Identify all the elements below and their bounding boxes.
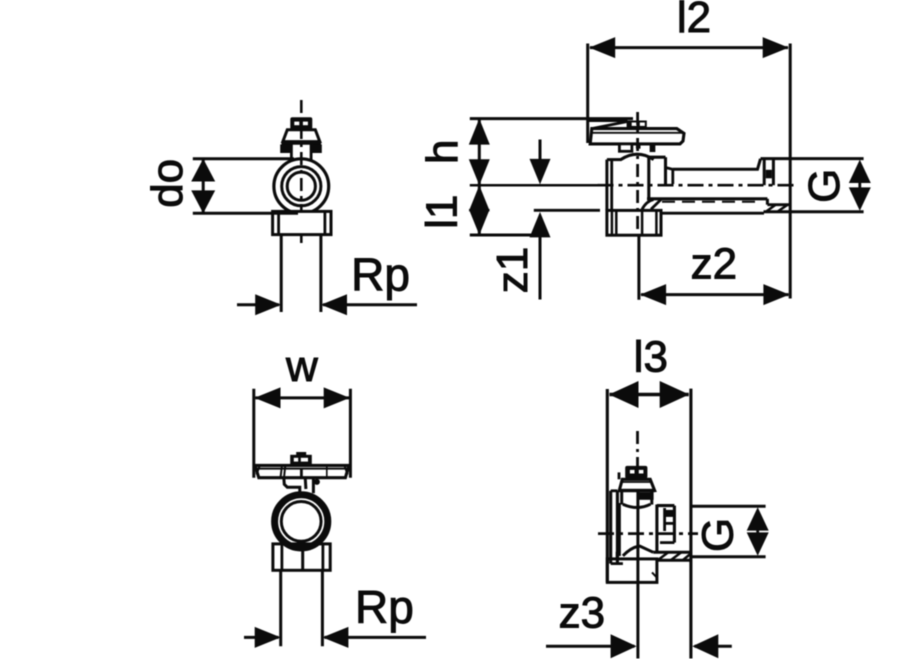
svg-text:z1: z1 bbox=[488, 247, 537, 293]
flange left chamfer B bbox=[651, 200, 661, 210]
dimension w extension lines bbox=[252, 389, 255, 478]
packing nut right block A bbox=[311, 145, 321, 153]
dimension l1 bottom extension line bbox=[470, 234, 544, 237]
svg-text:l1: l1 bbox=[418, 195, 467, 229]
dimension l3 extension line left bbox=[606, 389, 609, 582]
fitting verticals B bbox=[763, 159, 766, 185]
stem ball C bbox=[314, 479, 320, 485]
flange bottom edge D bbox=[657, 559, 691, 562]
dimension Rp C line right bbox=[325, 636, 427, 639]
body top edge B bbox=[607, 158, 622, 161]
svg-text:z3: z3 bbox=[559, 589, 605, 638]
valve outer ring C thick bbox=[275, 495, 328, 548]
body right edge B bbox=[647, 157, 650, 199]
bonnet dome D bbox=[623, 504, 651, 507]
body left inner edge B bbox=[610, 160, 613, 211]
handle tab C bbox=[296, 452, 306, 455]
dimension G arrows B bbox=[858, 180, 861, 190]
horizontal centerline D dash-dot bbox=[598, 532, 698, 535]
flange bottom edge B bbox=[653, 212, 765, 215]
outlet thread mark D bbox=[663, 508, 666, 531]
valve stem cap D bbox=[625, 466, 647, 479]
hex nut A bbox=[273, 211, 331, 234]
svg-text:Rp: Rp bbox=[355, 581, 414, 633]
dimension l2 extension line left bbox=[586, 44, 589, 144]
fitting top edge and G extension top B bbox=[761, 157, 864, 160]
dimension h top extension line bbox=[470, 117, 633, 120]
outlet right edge B bbox=[664, 157, 667, 184]
vertical centerline A bbox=[300, 100, 303, 246]
ball silhouette curve D bbox=[623, 546, 653, 556]
stem left block B bbox=[619, 144, 632, 151]
horizontal centerline B dash-dot bbox=[598, 184, 799, 187]
packing nut left block A bbox=[281, 145, 291, 153]
stem column lines A bbox=[290, 143, 293, 161]
nut D bbox=[607, 559, 657, 583]
body left edge D bbox=[618, 503, 621, 556]
svg-text:z2: z2 bbox=[691, 240, 737, 289]
handle tab B bbox=[627, 121, 647, 129]
z2 left extension line B bbox=[637, 236, 640, 300]
stem block D bbox=[620, 491, 623, 505]
dimension l2 line and arrows bbox=[590, 46, 788, 49]
dimension h and l1 line with arrows bbox=[478, 119, 481, 235]
handle bar C bbox=[255, 465, 349, 477]
dimension do arrows bbox=[202, 159, 205, 214]
valve bonnet trapezoid A bbox=[283, 130, 320, 142]
pipe walls C bbox=[279, 570, 282, 646]
outlet bottom edge D bbox=[660, 541, 674, 544]
flange upper band inner dashed B bbox=[662, 201, 757, 203]
dimension G arrows D bbox=[756, 528, 759, 535]
fitting thread mark B bbox=[766, 170, 772, 179]
flange top edge D bbox=[653, 551, 691, 554]
dimension z1 reference line bbox=[534, 209, 600, 212]
flange upper band top B bbox=[647, 197, 767, 200]
flange left bump arc B bbox=[642, 200, 654, 210]
dimension l3 extension line right bbox=[689, 389, 692, 659]
horizontal centerline B solid part (h l1 extension) bbox=[470, 184, 598, 187]
vertical centerline D solid and z3 extension bbox=[636, 492, 639, 659]
stem ball B bbox=[636, 144, 641, 149]
bonnet base bar A bbox=[282, 141, 322, 145]
outlet step B bbox=[666, 168, 673, 170]
valve inner circle C bbox=[281, 502, 321, 542]
pipe top edge B bbox=[673, 159, 761, 170]
pipe walls A bbox=[280, 235, 283, 312]
dimension z3 line left bbox=[546, 645, 635, 648]
middle ring circle A bbox=[282, 167, 321, 206]
svg-text:l2: l2 bbox=[677, 0, 711, 42]
handle bar B bbox=[590, 129, 684, 144]
outlet top edge B bbox=[649, 156, 666, 159]
dimension z3 line right bbox=[695, 645, 732, 648]
svg-text:h: h bbox=[418, 140, 467, 164]
valve body outer circle A bbox=[274, 159, 329, 214]
nut B bbox=[607, 210, 661, 235]
valve stem cap A bbox=[290, 117, 312, 129]
handle end dark block D bbox=[639, 492, 654, 500]
bonnet trapezoid D bbox=[619, 479, 654, 490]
stem left piece C bbox=[284, 478, 300, 492]
outlet top edge D bbox=[657, 504, 675, 507]
svg-text:do: do bbox=[143, 159, 192, 208]
flange hatch B bbox=[766, 205, 776, 212]
inner bore circle A bbox=[287, 172, 315, 200]
flange lower band top B bbox=[767, 203, 790, 206]
dimension z1 upper pointer bbox=[539, 140, 542, 161]
dimension z2 line and arrows bbox=[641, 293, 789, 296]
hex nut C bbox=[273, 544, 330, 570]
svg-text:w: w bbox=[285, 342, 318, 391]
outlet end face D bbox=[673, 506, 676, 543]
vertical centerline B dash-dot bbox=[636, 112, 639, 236]
flange step B bbox=[766, 199, 769, 205]
vertical centerline D dash-dot bbox=[636, 431, 639, 492]
dimension Rp A line right bbox=[323, 303, 417, 306]
svg-text:G: G bbox=[693, 518, 742, 552]
dimension l3 line and arrows bbox=[610, 393, 689, 396]
svg-text:l3: l3 bbox=[634, 333, 668, 382]
dimension z1 lower pointer bbox=[530, 212, 551, 238]
wall flange D bbox=[609, 491, 612, 564]
body right edge D bbox=[655, 505, 658, 553]
dimension l2 + z2 extension line right bbox=[789, 44, 792, 299]
svg-text:G: G bbox=[800, 169, 849, 203]
stem right block B bbox=[650, 144, 654, 151]
wall plate tick D bbox=[618, 472, 621, 479]
dimension Rp C line left bbox=[244, 636, 279, 639]
flange hatch D bbox=[658, 553, 668, 561]
dimension do extension lines bbox=[193, 157, 294, 160]
flange lower band bottom and G extension bottom B bbox=[764, 210, 864, 213]
bonnet dome B bbox=[621, 154, 654, 159]
svg-text:Rp: Rp bbox=[351, 249, 410, 301]
stem right piece C bbox=[304, 478, 308, 489]
dimension w line and arrows bbox=[255, 396, 349, 399]
body left outer edge B bbox=[605, 160, 608, 211]
dimension G extension lines D bbox=[691, 505, 766, 508]
handle top face slant B bbox=[592, 122, 627, 129]
dimension Rp A line left bbox=[237, 303, 279, 306]
